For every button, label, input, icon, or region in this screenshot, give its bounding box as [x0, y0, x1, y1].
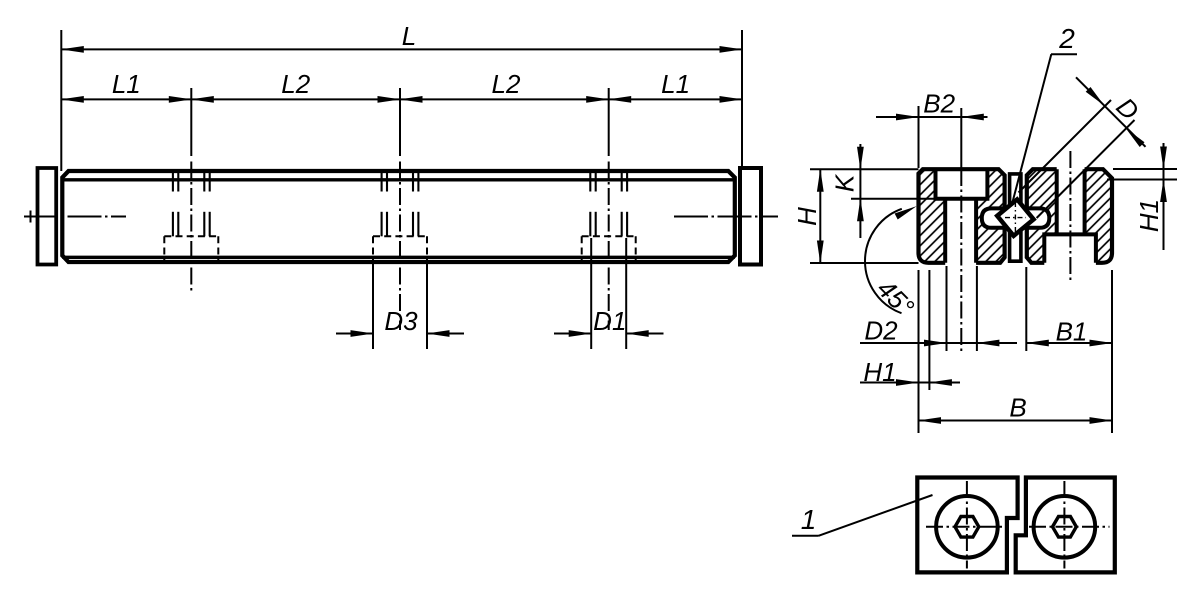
svg-text:L2: L2 — [281, 69, 310, 99]
svg-text:H1: H1 — [1134, 199, 1164, 232]
svg-text:L1: L1 — [661, 69, 690, 99]
svg-text:B2: B2 — [923, 88, 955, 118]
svg-text:K: K — [829, 173, 859, 192]
svg-text:L2: L2 — [492, 69, 521, 99]
svg-text:B: B — [1009, 392, 1026, 422]
svg-text:D3: D3 — [384, 306, 418, 336]
svg-text:2: 2 — [1058, 23, 1075, 54]
svg-text:D2: D2 — [864, 315, 898, 345]
svg-text:D1: D1 — [593, 306, 626, 336]
svg-text:L1: L1 — [112, 69, 141, 99]
svg-text:H: H — [792, 207, 822, 226]
svg-text:H1: H1 — [863, 357, 896, 387]
svg-text:B1: B1 — [1056, 316, 1088, 346]
svg-text:L: L — [402, 21, 416, 51]
svg-text:1: 1 — [801, 504, 817, 535]
